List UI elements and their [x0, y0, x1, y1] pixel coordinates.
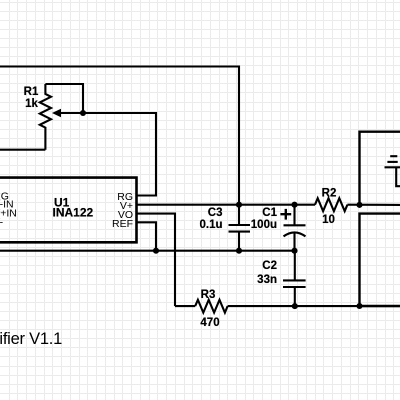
- svg-text:0.1u: 0.1u: [199, 219, 222, 231]
- svg-text:C3: C3: [208, 207, 223, 219]
- svg-text:100u: 100u: [251, 219, 277, 231]
- svg-text:470: 470: [200, 317, 219, 329]
- svg-text:R2: R2: [322, 188, 337, 200]
- svg-text:R3: R3: [201, 289, 216, 301]
- svg-text:C1: C1: [262, 207, 277, 219]
- svg-text:C2: C2: [262, 260, 277, 272]
- svg-text:REF: REF: [112, 218, 133, 230]
- svg-text:INA122: INA122: [53, 206, 94, 220]
- svg-text:10: 10: [322, 214, 335, 226]
- svg-text:R1: R1: [24, 86, 39, 98]
- svg-text:1k: 1k: [25, 98, 38, 110]
- svg-text:lifier V1.1: lifier V1.1: [0, 330, 62, 348]
- svg-text:33n: 33n: [257, 274, 277, 286]
- svg-text:V-: V-: [0, 216, 4, 228]
